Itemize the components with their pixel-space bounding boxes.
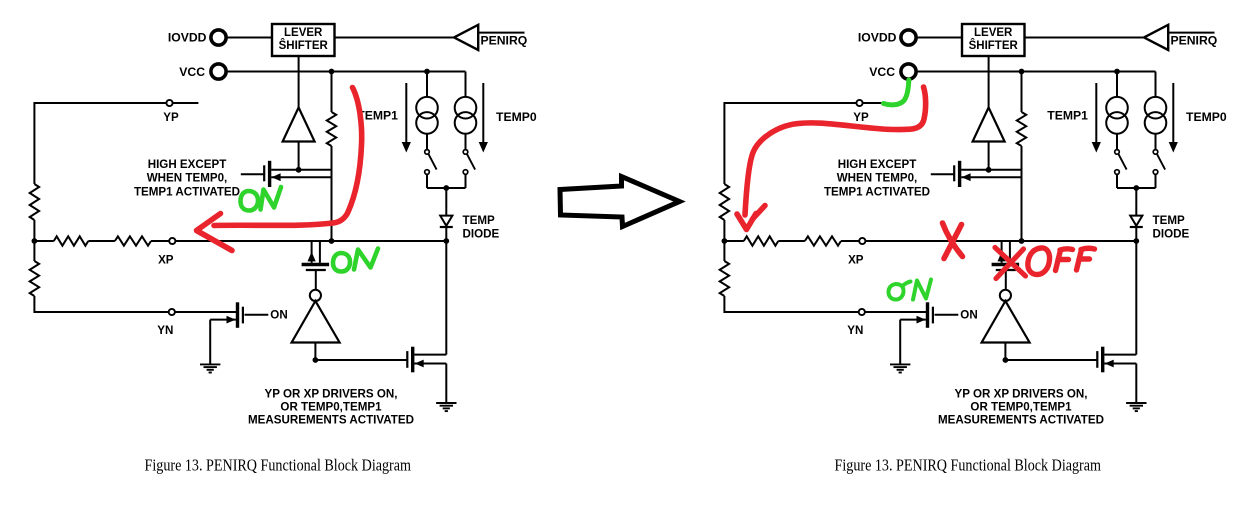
node dot left rail XP (right) [722,238,728,244]
PENIRQ buffer triangle (right) [1144,25,1168,50]
IOVDD terminal (left) [211,30,226,45]
big block arrow between diagrams [560,177,680,227]
resistor R4 (left) [30,261,39,296]
svg-text:OR TEMP0,TEMP1: OR TEMP0,TEMP1 [970,401,1072,414]
wire M4 source to ground (left) [209,320,211,365]
svg-text:YP OR XP DRIVERS ON,: YP OR XP DRIVERS ON, [265,387,398,400]
ground M4 (left) [200,363,220,365]
transistor M1 (right) [953,165,955,181]
buffer U2 triangle (left) [283,108,315,142]
wire level shifter down to buffer U2 (right) [988,56,990,108]
wire R4 to YN row (left) [34,296,236,312]
node dot VCC-I1 (right) [1114,69,1120,75]
svg-text:YP OR XP DRIVERS ON,: YP OR XP DRIVERS ON, [955,387,1088,400]
level shifter box U1 (left) [272,24,335,56]
svg-text:LEVER: LEVER [284,27,323,39]
svg-text:HIGH EXCEPT: HIGH EXCEPT [838,158,917,171]
svg-text:MEASUREMENTS ACTIVATED: MEASUREMENTS ACTIVATED [938,414,1104,427]
node dot buffer output (right) [986,167,992,173]
wire level shifter to PENIRQ buffer (right) [1025,37,1145,39]
wire inverter input (right) [1004,343,1006,361]
level shifter box U1 (right) [962,24,1025,56]
transistor M4 YN-driver (right) [926,302,929,328]
TEMP0 arrow (left) [482,83,484,144]
VCC rail wire (left) [228,71,466,73]
node dot left rail XP (left) [32,238,38,244]
transistor M1 (left) [263,165,265,181]
YN open node (right) [859,309,865,315]
node dot VCC-R5 (right) [1019,69,1025,75]
wire level shifter down to buffer U2 (left) [298,56,300,108]
node dot diode-XP (right) [1133,238,1139,244]
wire inverter to M3 gate (left) [315,359,407,361]
node dot buffer output (left) [296,167,302,173]
wire switch join bar (left) [427,187,466,189]
inverter U3 (left) [310,290,321,301]
svg-text:DIODE: DIODE [463,227,500,240]
node dot VCC-R5 (left) [329,69,335,75]
svg-text:IOVDD: IOVDD [168,30,207,44]
wire M4 source to ground (right) [899,320,901,365]
wire M3 source to ground (right) [1135,364,1137,403]
wire R4 to YN row (right) [724,296,926,312]
resistor R5 pull-up (left) [327,112,336,146]
svg-text:PENIRQ: PENIRQ [1171,33,1218,47]
red handwritten OFF (right) [1028,248,1095,275]
wire M2 gate to inverter (left) [315,270,317,290]
VCC terminal (right) [901,64,916,79]
node dot join bar (left) [443,185,449,191]
buffer U2 triangle (right) [973,108,1005,142]
wire diode to XP row (right) [1135,227,1137,241]
red X over transistor M2 (right) [995,248,1026,279]
resistor R1 (left) [54,236,89,245]
resistor R1 (right) [744,236,779,245]
switch S2 TEMP0 (left) [463,150,468,155]
TEMP1 arrow (left) [405,83,407,144]
wire R3 to R4 (right) [723,220,725,261]
svg-text:WHEN TEMP0,: WHEN TEMP0, [837,171,918,184]
PENIRQ buffer triangle (left) [454,25,478,50]
ground M3 (left) [436,402,456,404]
wire R2 to XP node (right) [841,240,859,242]
svg-text:PENIRQ: PENIRQ [481,33,528,47]
wire IOVDD to level shifter (left) [228,37,272,39]
wire R3 to R4 (left) [33,220,35,261]
red X on XP wire (right) [943,223,963,259]
transistor M3 (right) [1096,351,1098,368]
svg-text:DIODE: DIODE [1153,227,1190,240]
YP open node (right) [856,100,862,106]
IOVDD terminal (right) [901,30,916,45]
resistor R5 pull-up (right) [1017,112,1026,146]
inverter U3 (right) [1000,290,1011,301]
resistor R3 (left) [30,184,39,220]
resistor R2 (left) [115,236,151,245]
resistor R4 (right) [720,261,729,296]
svg-text:VCC: VCC [179,65,205,79]
PENIRQ overline (right) [1168,32,1214,34]
svg-text:LEVER: LEVER [974,27,1013,39]
svg-text:TEMP1: TEMP1 [1047,109,1088,123]
svg-text:ŜHIFTER: ŜHIFTER [279,39,329,52]
wire inverter to M3 gate (right) [1005,359,1097,361]
XP row wire (right) [865,240,1136,242]
green handwritten check near VCC (right) [884,80,909,105]
wire inverter input (left) [314,343,316,361]
temp diode D1 (right) [1130,216,1142,226]
svg-text:ON: ON [960,309,977,322]
svg-text:XP: XP [848,253,864,266]
current source I1 TEMP1 (left) [426,72,428,98]
svg-text:TEMP0: TEMP0 [1186,110,1227,124]
wire M2 gate to inverter (right) [1005,270,1007,290]
green handwritten ON near M1 (left) [241,187,282,211]
YP node wire (right) [724,103,888,184]
wire R5 down to XP switch node (right) [1021,146,1023,241]
resistor R3 (right) [720,184,729,220]
wire R1 to R2 (left) [88,240,115,242]
node dot inverter input (right) [1003,357,1009,363]
wire rail to R1 (right) [724,240,743,242]
svg-text:VCC: VCC [869,65,895,79]
svg-text:XP: XP [158,253,174,266]
wire diode to XP row (left) [445,227,447,241]
svg-text:TEMP0: TEMP0 [496,110,537,124]
temp diode D1 (left) [440,216,452,226]
current source I1 TEMP1 (right) [1116,72,1118,98]
wire buffer U2 output (left) [298,142,300,171]
wire VCC to R5 (left) [331,72,333,113]
current source I2 TEMP0 (right) [1155,72,1157,98]
switch S1 TEMP1 (left) [425,150,430,155]
svg-text:WHEN TEMP0,: WHEN TEMP0, [147,171,228,184]
ground M4 (right) [890,363,910,365]
green handwritten ON near M2 (left) [333,249,378,272]
wire switch join bar (right) [1117,187,1156,189]
svg-text:YN: YN [157,324,173,337]
XP open node (right) [859,238,865,244]
YN open node (left) [169,309,175,315]
wire bar to temp diode (left) [445,188,447,215]
green handwritten ON near M4 (right) [889,280,932,300]
XP row wire (left) [175,240,446,242]
svg-text:TEMP1 ACTIVATED: TEMP1 ACTIVATED [134,185,240,198]
VCC terminal (left) [211,64,226,79]
svg-text:ON: ON [270,309,287,322]
svg-text:YP: YP [163,111,179,124]
svg-text:TEMP: TEMP [463,214,495,227]
wire M3 source to ground (left) [445,364,447,403]
transistor M1 gate wire (right) [931,173,954,175]
svg-text:HIGH EXCEPT: HIGH EXCEPT [148,158,227,171]
TEMP1 arrow (right) [1095,83,1097,144]
svg-text:IOVDD: IOVDD [858,30,897,44]
node dot join bar (right) [1133,185,1139,191]
wire rail to R1 (left) [34,240,53,242]
switch S1 TEMP1 (right) [1115,150,1120,155]
node dot M2 drain (left) [329,238,335,244]
TEMP0 arrow (right) [1172,83,1174,144]
wire buffer U2 output (right) [988,142,990,171]
svg-text:TEMP: TEMP [1153,214,1185,227]
transistor M1 gate wire (left) [241,173,264,175]
svg-text:ŜHIFTER: ŜHIFTER [969,39,1019,52]
wire IOVDD to level shifter (right) [918,37,962,39]
svg-text:TEMP1 ACTIVATED: TEMP1 ACTIVATED [824,185,930,198]
XP open node (left) [169,238,175,244]
red handwritten arrow (left) [197,88,362,251]
YP open node (left) [166,100,172,106]
wire VCC to R5 (right) [1021,72,1023,113]
current source I2 TEMP0 (left) [465,72,467,98]
red handwritten path YP to XP (right) [737,87,926,230]
svg-text:YP: YP [853,111,869,124]
transistor M4 YN-driver (left) [236,302,239,328]
YP node wire (left) [34,103,198,184]
switch S2 TEMP0 (right) [1153,150,1158,155]
wire R1 to R2 (right) [778,240,805,242]
svg-text:OR TEMP0,TEMP1: OR TEMP0,TEMP1 [280,401,382,414]
wire R2 to XP node (left) [151,240,169,242]
transistor M2 XP-driver (left) [311,241,313,263]
wire bar to temp diode (right) [1135,188,1137,215]
wire R5 down to XP switch node (left) [331,146,333,241]
wire level shifter to PENIRQ buffer (left) [335,37,455,39]
transistor M3 (left) [406,351,408,368]
wire XP row down to M3 (left) [445,241,447,355]
svg-text:Figure 13. PENIRQ Functional B: Figure 13. PENIRQ Functional Block Diagr… [145,455,412,474]
svg-text:MEASUREMENTS ACTIVATED: MEASUREMENTS ACTIVATED [248,414,414,427]
resistor R2 (right) [805,236,841,245]
PENIRQ overline (left) [478,32,524,34]
wire XP row down to M3 (right) [1135,241,1137,355]
svg-text:YN: YN [847,324,863,337]
transistor M2 XP-driver (right) [1001,241,1003,263]
node dot inverter input (left) [313,357,319,363]
svg-text:Figure 13. PENIRQ Functional B: Figure 13. PENIRQ Functional Block Diagr… [835,455,1102,474]
node dot VCC-I1 (left) [424,69,430,75]
ground M3 (right) [1126,402,1146,404]
node dot M2 drain (right) [1019,238,1025,244]
VCC rail wire (right) [918,71,1156,73]
node dot diode-XP (left) [443,238,449,244]
